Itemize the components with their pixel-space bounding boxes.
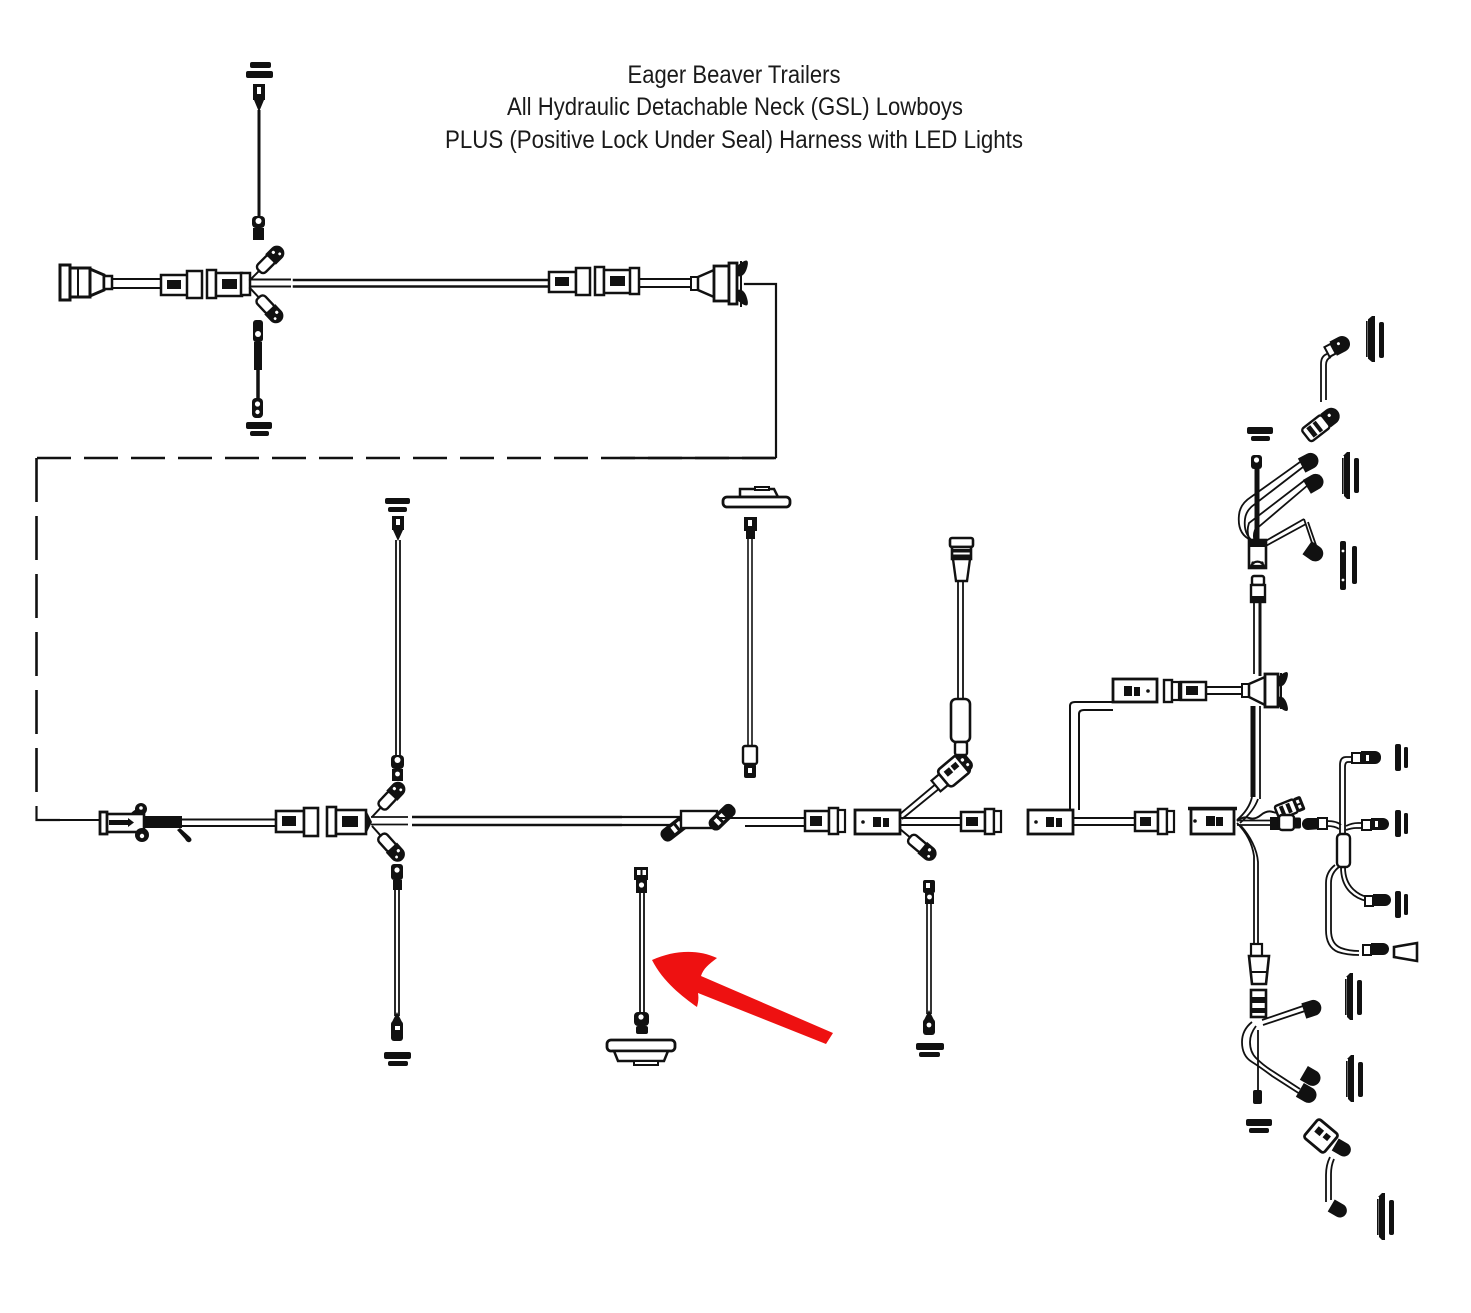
connector pair B female xyxy=(595,267,639,295)
connector P1 7-pin round plug xyxy=(60,265,112,300)
connector lower stub bottom xyxy=(252,398,263,418)
wire lower stub xyxy=(256,368,260,400)
connector stack ribbed xyxy=(1251,990,1266,1017)
grommet cone xyxy=(1394,943,1417,961)
bullet terminal left of sleeve xyxy=(658,814,690,844)
connector pair C male xyxy=(276,808,318,836)
marker lamp vertical pair mid1 xyxy=(1341,452,1359,499)
wire dashed left vertical xyxy=(35,458,38,796)
bullet terminal right of JB3 xyxy=(1270,815,1301,830)
marker lamp vertical pair mid2 xyxy=(1340,541,1357,590)
wire corner to dashed box xyxy=(745,284,776,457)
wire fan spine xyxy=(1255,468,1260,545)
connector left drop bottom xyxy=(391,1012,403,1041)
bullet terminal bottom-right bottom xyxy=(1328,1199,1350,1220)
wire dome lead xyxy=(748,539,752,748)
connector striped S-cable end with bullet cap xyxy=(1301,404,1343,442)
marker lamp vertical pair sub3 xyxy=(1395,891,1408,918)
connector below fan xyxy=(1251,576,1265,602)
connector pair C female / junction body xyxy=(327,807,372,836)
connector upper stub top xyxy=(253,84,265,112)
wire twisted branch to striped connector xyxy=(1237,811,1281,821)
branch terminal up low junction xyxy=(367,779,409,823)
marker lamp bars top-left xyxy=(246,62,273,78)
wire spine lower xyxy=(1253,706,1260,799)
bullet terminal sub 3 xyxy=(1365,894,1391,906)
bullet terminal bottom fan 2 xyxy=(1300,1066,1324,1089)
connector arrow lead bottom xyxy=(634,1012,649,1034)
wire fan branch 3 xyxy=(1262,519,1317,549)
sleeve splice xyxy=(681,811,717,828)
wire JB2 to connector F xyxy=(1073,818,1136,825)
connector left drop top xyxy=(391,864,403,890)
connector mid cable top cap xyxy=(950,538,973,581)
wire sub branch down-right xyxy=(1341,867,1367,901)
marker lamp vertical pair bottom-right xyxy=(1376,1193,1394,1240)
wire JB3 top riser xyxy=(1237,797,1258,823)
branch terminal down of top junction xyxy=(245,283,287,327)
wire low harness main xyxy=(412,817,622,825)
bullet terminal sub middle-right xyxy=(1362,818,1389,830)
wire top harness thin mid xyxy=(250,280,290,287)
connector H funnel socket xyxy=(1242,672,1288,711)
bullet terminal sub 4 xyxy=(1363,943,1389,955)
svg-text:All Hydraulic Detachable Neck: All Hydraulic Detachable Neck (GSL) Lowb… xyxy=(507,93,963,121)
connector left riser bottom xyxy=(391,755,404,781)
connector small bottom center xyxy=(1253,1090,1262,1104)
wire to bullet right of JB3 xyxy=(1237,821,1270,826)
marker lamp bars below mid drop xyxy=(916,1043,944,1057)
connector left riser top xyxy=(392,516,404,541)
connector D with ribs xyxy=(805,808,845,834)
connector mid drop bottom xyxy=(923,1010,935,1035)
bullet terminal sub middle-left xyxy=(1302,818,1327,830)
marker lamp vertical pair sub2 xyxy=(1395,810,1408,837)
wire arrow lead xyxy=(640,893,644,1013)
wire top harness left xyxy=(112,279,162,288)
connector J2 round socket xyxy=(691,260,748,306)
wire JB2 risers up to JB4 xyxy=(1070,702,1113,810)
connector striped on JB3 branch xyxy=(1274,796,1306,820)
junction node low harness xyxy=(371,817,408,825)
wire right of sleeve xyxy=(717,818,806,826)
junction box JB2 xyxy=(1028,810,1073,834)
wire JB4 chain to funnel xyxy=(1206,687,1244,694)
bullet terminal bottom fan 1 xyxy=(1301,998,1323,1019)
connector lower stub top xyxy=(253,320,263,370)
bullet terminal fan 2 xyxy=(1303,471,1327,494)
connector collar above cone xyxy=(1251,944,1262,956)
connector fan top xyxy=(1251,455,1262,469)
connector pair A female xyxy=(207,270,250,298)
connector E with ribs xyxy=(961,809,1001,834)
sleeve sub spine xyxy=(1337,834,1350,867)
wire sub-harness spine xyxy=(1340,757,1352,834)
bullet terminal fan 1 xyxy=(1298,450,1321,473)
marker lamp bars above left riser xyxy=(385,498,410,512)
wire solid segment right of dashes xyxy=(620,457,774,459)
wire top harness right xyxy=(639,279,692,287)
marker lamp vertical pair top-right xyxy=(1365,316,1384,362)
wire upper stub xyxy=(258,110,261,218)
wire corner at dashed box bottom xyxy=(37,806,61,820)
wire bottom fan xyxy=(1242,1006,1305,1094)
marker lamp vertical pair sub1 xyxy=(1395,744,1408,771)
connector F with ribs xyxy=(1135,809,1174,834)
wire fan branch 2 xyxy=(1248,480,1308,546)
dome lamp bottom xyxy=(607,1040,675,1065)
connector angled square xyxy=(1303,1118,1338,1153)
bullet terminal sub top xyxy=(1352,751,1381,764)
wire mid drop xyxy=(927,903,931,1014)
wire lead from dashed box xyxy=(37,819,103,821)
wire JB3 bottom drop xyxy=(1237,823,1258,946)
connector upper stub bottom xyxy=(252,216,265,240)
branch terminal down-right from JB1 xyxy=(895,823,939,864)
junction box JB1 xyxy=(855,810,900,834)
wire left drop xyxy=(395,888,399,1016)
svg-text:PLUS (Positive Lock Under Seal: PLUS (Positive Lock Under Seal) Harness … xyxy=(445,126,1023,154)
wire dashed top xyxy=(37,457,776,459)
connector mid drop top xyxy=(923,880,935,904)
wire into sleeve xyxy=(622,817,683,825)
connector mid cable bottom xyxy=(951,699,970,755)
connector 2-pin on branch xyxy=(929,750,976,794)
connector stack bottom cone xyxy=(1249,956,1269,984)
junction box JB4 xyxy=(1113,679,1157,702)
wire bottom-right xyxy=(1326,1157,1334,1202)
wire sub branch down-left xyxy=(1326,865,1359,955)
connector G ribs xyxy=(1164,680,1206,702)
marker lamp vertical pair bottom1 xyxy=(1344,973,1362,1020)
wire sub middle branch xyxy=(1327,821,1362,830)
connector arrow lead top xyxy=(634,867,648,893)
red callout arrow xyxy=(652,952,833,1044)
connector dome lead top xyxy=(744,517,757,539)
bullet terminal fan 3 xyxy=(1302,541,1326,564)
svg-text:Eager Beaver Trailers: Eager Beaver Trailers xyxy=(628,61,841,89)
wire spine upper xyxy=(1254,602,1260,676)
connector pair A male xyxy=(161,271,202,298)
bullet terminal bottom-right top xyxy=(1332,1138,1354,1159)
connector dome lead bottom xyxy=(743,746,757,778)
marker lamp vertical pair bottom2 xyxy=(1345,1055,1363,1102)
wire fan branch 1 xyxy=(1239,462,1303,543)
wire mid cable xyxy=(958,581,963,700)
wire S-cable xyxy=(1321,354,1331,402)
wire top harness main xyxy=(294,280,549,287)
wire to connector pair C xyxy=(182,820,276,827)
bullet terminal S-cable top xyxy=(1323,333,1353,359)
marker lamp bars below left drop xyxy=(384,1052,411,1066)
wire JB1 to connector E xyxy=(900,818,962,825)
wire branch up-right from JB1 xyxy=(900,783,940,819)
dome lamp top middle xyxy=(723,487,790,507)
bullet terminal bottom fan 3 xyxy=(1296,1083,1320,1106)
connector P2 flat plug xyxy=(100,803,192,842)
connector fan barrel xyxy=(1249,540,1266,568)
connector pair B male xyxy=(549,268,590,295)
marker lamp bars right upper xyxy=(1247,427,1273,441)
junction box JB3 xyxy=(1188,809,1237,835)
branch terminal down low junction xyxy=(366,821,408,865)
marker lamp bars below lower stub xyxy=(246,422,272,436)
marker lamp bars right lower xyxy=(1246,1119,1272,1133)
bullet terminal right of sleeve xyxy=(706,801,738,833)
wire left riser xyxy=(396,540,400,757)
branch terminal up of top junction xyxy=(245,243,288,286)
